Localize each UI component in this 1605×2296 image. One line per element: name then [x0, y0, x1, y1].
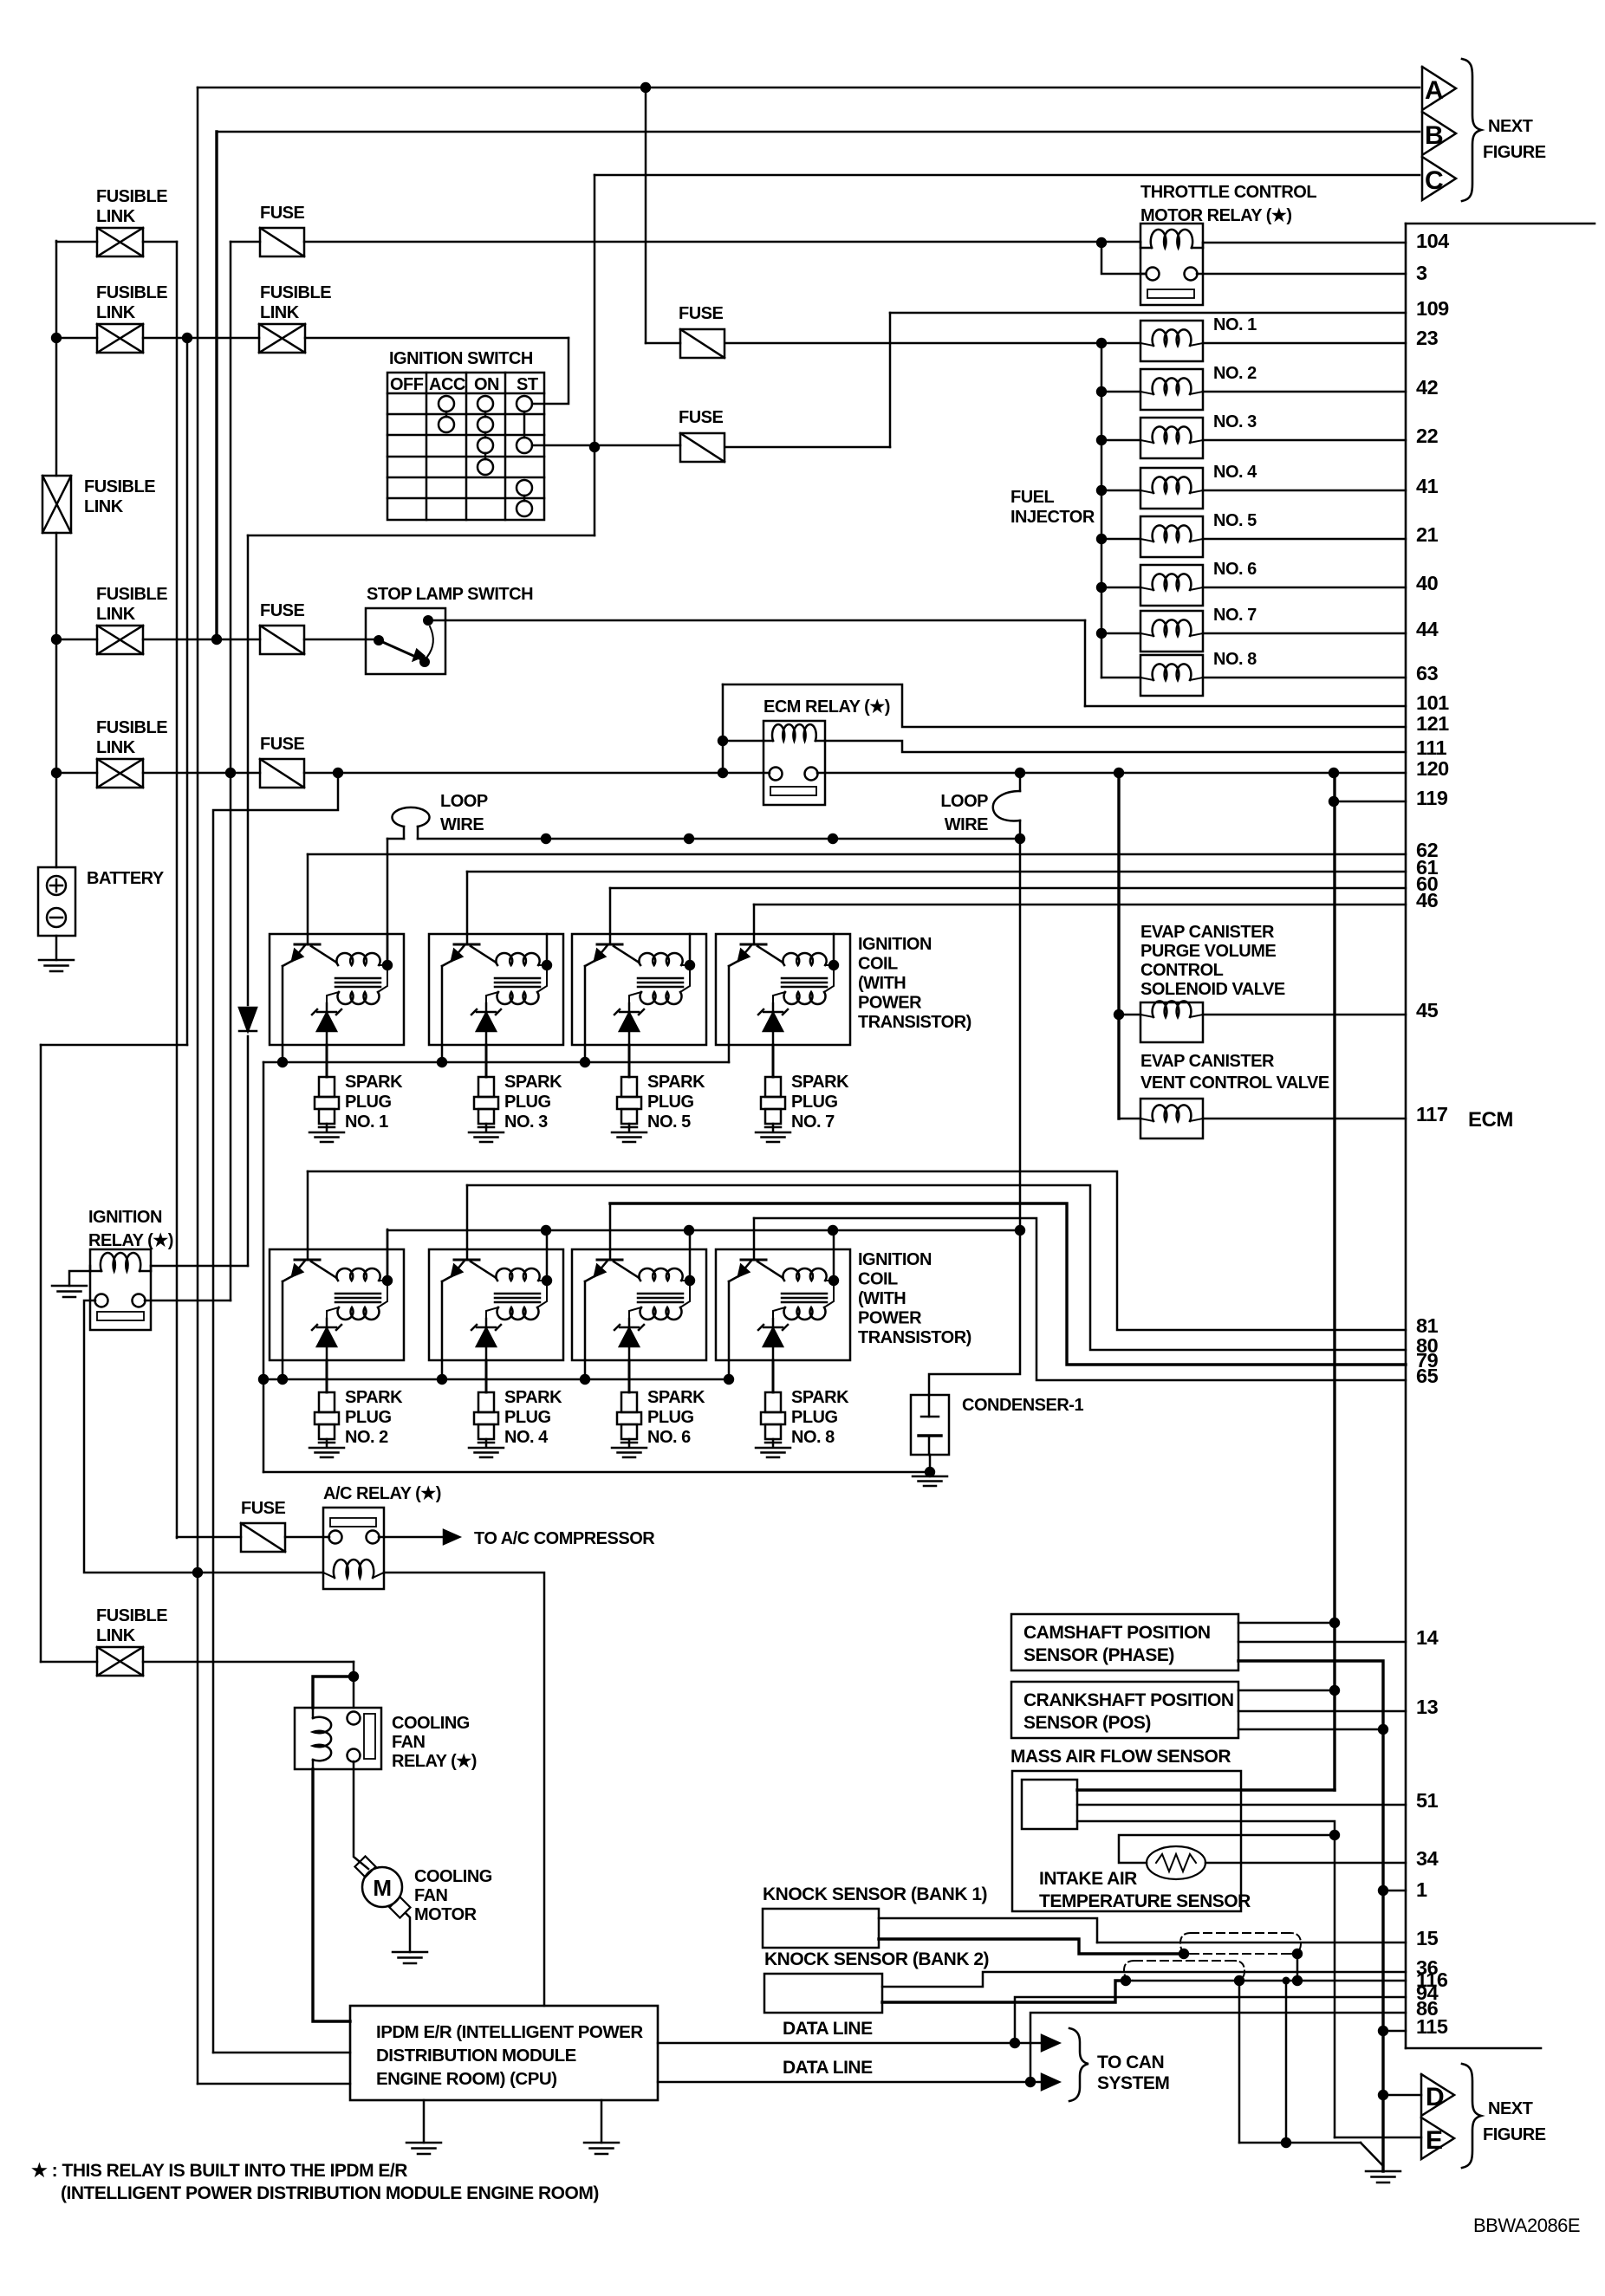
spark plug NO. 8 [765, 1392, 781, 1412]
wire sensor feed riser x1540 (upper) [1333, 773, 1335, 1790]
ECM relay lower bar [770, 787, 816, 795]
svg-text:ENGINE ROOM) (CPU): ENGINE ROOM) (CPU) [376, 2069, 557, 2089]
junction net-A / fuse feed x745 [640, 82, 651, 93]
junction knock1 shield right [1292, 1949, 1303, 1959]
svg-text:ECM RELAY (★): ECM RELAY (★) [764, 697, 890, 717]
ground spark plug NO. 5 [612, 1132, 647, 1134]
svg-text:VENT CONTROL VALVE: VENT CONTROL VALVE [1140, 1073, 1329, 1093]
svg-text:NO. 4: NO. 4 [1213, 463, 1257, 482]
spark plug NO. 1 [319, 1077, 335, 1097]
wire x266 vertical [230, 242, 232, 1300]
svg-text:14: 14 [1416, 1626, 1439, 1649]
ground spark plug NO. 6 [612, 1447, 647, 1450]
A/C relay contacts [329, 1531, 342, 1544]
ignition coil primary #3 [639, 953, 682, 965]
svg-text:45: 45 [1416, 999, 1439, 1022]
ignition coil secondary #5 [337, 1307, 379, 1320]
wire knock2 w2 shield [882, 1981, 1126, 2002]
ECM relay RY2 box [764, 721, 825, 805]
junction primary/secondary right #4 [828, 960, 839, 970]
diode ignition coil #6 [477, 1328, 496, 1346]
fuel injector NO. 8 [1101, 677, 1140, 679]
svg-text:104: 104 [1416, 230, 1449, 252]
junction bus2 riser [1015, 1225, 1025, 1236]
brace next-figure bottom [1462, 2064, 1481, 2168]
svg-text:KNOCK SENSOR (BANK 1): KNOCK SENSOR (BANK 1) [763, 1884, 987, 1904]
svg-text:NO. 1: NO. 1 [1213, 315, 1257, 334]
transistor Q4 [741, 944, 766, 946]
wire to A/C compressor [379, 1536, 444, 1539]
wire base line 62 [307, 854, 309, 934]
ignition coil primary #7 [639, 1268, 682, 1281]
diode ignition coil #3 [620, 1013, 639, 1031]
wire box1 primary feed drop [387, 839, 389, 965]
ECM relay contacts [770, 768, 783, 781]
svg-text:FUSIBLE: FUSIBLE [96, 283, 167, 302]
wire injector NO. 7 to ECM [1203, 632, 1406, 635]
fuel injector NO. 2 [1101, 391, 1140, 393]
junction primary/secondary right #5 [382, 1275, 393, 1286]
svg-text:FUSE: FUSE [679, 408, 724, 427]
wire net-A into IPDM [198, 2083, 350, 2085]
svg-text:RELAY (★): RELAY (★) [88, 1231, 173, 1250]
svg-text:POWER: POWER [858, 1309, 922, 1328]
svg-text:NO. 8: NO. 8 [1213, 650, 1257, 669]
svg-text:FAN: FAN [392, 1733, 426, 1752]
wire injector NO. 1 to ECM [1203, 342, 1406, 345]
svg-text:117: 117 [1416, 1103, 1448, 1125]
svg-text:ON: ON [474, 375, 499, 394]
svg-text:FUSIBLE: FUSIBLE [96, 718, 167, 737]
wire D stub [1383, 2094, 1421, 2097]
svg-text:NO. 6: NO. 6 [1213, 560, 1257, 579]
diode ignition coil #4 [764, 1013, 783, 1031]
transistor Q5 [295, 1259, 320, 1262]
ignition coil (with power transistor) box #2 [429, 934, 563, 1045]
svg-text:PLUG: PLUG [345, 1408, 392, 1427]
junction injector bus NO. 2 [1096, 386, 1107, 397]
wire ignition relay contact right to x266 [145, 1300, 231, 1302]
shield knock1 (dashed) [1191, 1933, 1293, 1954]
wire intake temp feed [1119, 1835, 1335, 1863]
svg-text:TRANSISTOR): TRANSISTOR) [858, 1328, 971, 1347]
ignition coil primary #1 [336, 953, 380, 965]
wire ECM relay coil-left riser [723, 740, 764, 743]
ECM relay coil [772, 724, 816, 741]
svg-text:IPDM E/R (INTELLIGENT POWER: IPDM E/R (INTELLIGENT POWER [376, 2022, 643, 2042]
wire spark leads row2 [326, 1360, 328, 1392]
svg-text:PURGE VOLUME: PURGE VOLUME [1140, 942, 1276, 961]
junction primary/secondary right #7 [685, 1275, 695, 1286]
svg-text:WIRE: WIRE [945, 815, 988, 834]
junction pin1 stub [1378, 1885, 1388, 1896]
A/C relay RY4 box [323, 1508, 384, 1589]
junction primary/secondary right #6 [542, 1275, 552, 1286]
svg-text:PLUG: PLUG [504, 1093, 551, 1112]
wire 34 to ECM [1205, 1862, 1406, 1865]
svg-text:34: 34 [1416, 1847, 1439, 1870]
svg-text:MASS AIR FLOW SENSOR: MASS AIR FLOW SENSOR [1010, 1747, 1231, 1767]
svg-text:B: B [1425, 121, 1443, 150]
ignition coil primary #4 [783, 953, 826, 965]
wire data2 riser to pin86 [1030, 2013, 1406, 2082]
connector triangle A [1422, 67, 1456, 110]
wire base line 81 [307, 1171, 309, 1249]
wire A/C coil right to IPDM [384, 1573, 544, 2006]
svg-text:LINK: LINK [96, 207, 136, 226]
wire throttle relay contact feed [1101, 243, 1146, 274]
diode ignition coil #5 [317, 1328, 336, 1346]
wire cooling fan coil feed [313, 1677, 354, 1708]
svg-text:OFF: OFF [390, 375, 424, 394]
IPDM E/R box [350, 2006, 658, 2100]
ignition coil (with power transistor) box #8 [716, 1249, 850, 1360]
svg-text:C: C [1425, 166, 1443, 195]
wire net-A drop x745 to fuse F4 [645, 88, 647, 343]
svg-text:42: 42 [1416, 376, 1439, 399]
fuel injector NO. 4 [1101, 490, 1140, 492]
wire motor to ground [406, 1913, 410, 1952]
svg-text:LINK: LINK [96, 738, 136, 757]
svg-text:NO. 3: NO. 3 [504, 1112, 548, 1132]
svg-text:FAN: FAN [414, 1886, 448, 1905]
svg-text:D: D [1426, 2083, 1444, 2111]
svg-text:PLUG: PLUG [647, 1093, 694, 1112]
junction injector bus NO. 3 [1096, 435, 1107, 445]
wire MAF w2 pin51 [1077, 1804, 1406, 1806]
crankshaft position sensor box [1011, 1682, 1238, 1738]
svg-text:NO. 7: NO. 7 [1213, 606, 1257, 625]
svg-text:FUSIBLE: FUSIBLE [96, 187, 167, 206]
junction battery bus / fusible-link row 4 [51, 768, 62, 778]
EVAP canister vent control valve [1119, 1118, 1140, 1120]
wire coil bus row2 [387, 1229, 1020, 1232]
svg-text:41: 41 [1416, 475, 1439, 497]
wire knock1 w1 to pin15 [879, 1918, 1097, 1943]
wire base line 60 [609, 888, 612, 934]
wire cam w3 to ground bus [1238, 1661, 1383, 2171]
junction shield ground run [1281, 2137, 1291, 2148]
svg-text:SPARK: SPARK [345, 1073, 403, 1092]
wire drop to A/C relay region x246 [213, 773, 338, 2053]
ECM box [1405, 224, 1407, 2048]
svg-text:FUSIBLE: FUSIBLE [96, 1606, 167, 1625]
svg-text:LINK: LINK [96, 303, 136, 322]
svg-text:PLUG: PLUG [647, 1408, 694, 1427]
svg-text:23: 23 [1416, 327, 1439, 349]
ignition switch SW1 table [387, 373, 544, 520]
svg-text:BATTERY: BATTERY [87, 869, 165, 888]
knock sensor bank2 box [764, 1974, 882, 2013]
junction net-B on stop-lamp fuse row [211, 634, 222, 645]
svg-text:109: 109 [1416, 297, 1449, 320]
wire ignition switch feed (ST row1) [532, 338, 569, 404]
connector triangle C [1422, 157, 1456, 200]
svg-text:NO. 2: NO. 2 [1213, 364, 1257, 383]
throttle relay lower bar [1147, 289, 1194, 298]
wire injector NO. 8 to ECM [1203, 677, 1406, 679]
svg-text:PLUG: PLUG [345, 1093, 392, 1112]
wire net-B horizontal [217, 131, 1420, 133]
junction 119/sensor riser [1329, 796, 1339, 807]
cooling fan relay contacts [348, 1712, 361, 1725]
fuel injector NO. 6 [1101, 587, 1140, 589]
junction pin115 stub [1378, 2026, 1388, 2036]
junction condenser ground [925, 1467, 935, 1477]
transistor Q3 [597, 944, 622, 946]
svg-text:NO. 3: NO. 3 [1213, 412, 1257, 431]
svg-text:DATA LINE: DATA LINE [783, 2058, 873, 2078]
wire ignition relay coil right to x286 [151, 1265, 248, 1268]
wire F6 feed from x204 [177, 1536, 241, 1539]
ground ignition relay [52, 1285, 87, 1287]
svg-text:SPARK: SPARK [647, 1073, 705, 1092]
camshaft position sensor box [1011, 1614, 1238, 1670]
svg-text:13: 13 [1416, 1696, 1439, 1718]
svg-text:PLUG: PLUG [791, 1093, 838, 1112]
wire base line 79 [609, 1203, 612, 1249]
ignition relay contacts [95, 1294, 108, 1307]
spark plug NO. 3 [478, 1077, 494, 1097]
svg-text:NO. 2: NO. 2 [345, 1428, 388, 1447]
wire stop-lamp fuse row [56, 639, 97, 641]
wire injector NO. 4 to ECM [1203, 490, 1406, 492]
svg-text:FUSE: FUSE [260, 735, 305, 754]
EVAP canister purge volume control solenoid valve [1119, 1014, 1140, 1016]
fuel injector NO. 3 [1101, 439, 1140, 442]
svg-text:SPARK: SPARK [504, 1073, 562, 1092]
fusible link FL2 [97, 324, 143, 353]
ignition coil secondary #1 [337, 992, 379, 1004]
svg-text:M: M [373, 1875, 391, 1901]
fuse F3 (ECM relay feed) [260, 759, 304, 788]
svg-text:(INTELLIGENT POWER DISTRIBUTIO: (INTELLIGENT POWER DISTRIBUTION MODULE E… [61, 2183, 599, 2203]
svg-text:SYSTEM: SYSTEM [1097, 2073, 1169, 2093]
diode ignition coil #7 [620, 1328, 639, 1346]
ground spark plug NO. 4 [469, 1447, 504, 1450]
svg-text:40: 40 [1416, 572, 1439, 594]
wire knock1 w2 shield [879, 1939, 1184, 1954]
svg-text:ST: ST [517, 375, 538, 394]
svg-text:NO. 7: NO. 7 [791, 1112, 835, 1132]
svg-text:INTAKE AIR: INTAKE AIR [1039, 1869, 1137, 1889]
svg-text:TO A/C COMPRESSOR: TO A/C COMPRESSOR [474, 1529, 655, 1548]
junction primary/secondary right #3 [685, 960, 695, 970]
ground condenser [913, 1476, 947, 1478]
wire net-C horizontal [595, 174, 1420, 177]
junction bus1/box4 [828, 833, 838, 844]
svg-text:44: 44 [1416, 618, 1439, 640]
wire injector NO. 2 to ECM [1203, 391, 1406, 393]
svg-text:121: 121 [1416, 712, 1449, 735]
stop lamp switch SW2 [366, 608, 445, 674]
ground spark plug NO. 8 [756, 1447, 790, 1450]
ignition coil (with power transistor) box #4 [716, 934, 850, 1045]
fuel injector NO. 7 [1101, 632, 1140, 635]
fuse F6 (A/C) [241, 1523, 285, 1552]
junction bus1/box2 [541, 833, 551, 844]
ignition coil secondary #2 [497, 992, 539, 1004]
brace next-figure top [1462, 59, 1481, 201]
wire MAF w1 [1077, 1788, 1335, 1791]
wire coil bus row1 [418, 838, 1020, 840]
wire 3 to ECM [1197, 273, 1406, 276]
fusible link FL3 (vertical, in battery bus) [42, 476, 71, 533]
wire cam w1 [1238, 1622, 1335, 1625]
svg-text:POWER: POWER [858, 994, 922, 1013]
wire data line 1 [658, 2042, 1042, 2045]
junction knock2 shield right [1234, 1975, 1244, 1986]
shield knock2 (dashed) [1134, 1961, 1237, 1981]
junction crank w1 [1329, 1685, 1340, 1696]
cooling fan motor M1 [354, 1856, 375, 1877]
wire 121 route [723, 684, 1406, 727]
svg-text:FUSE: FUSE [679, 304, 724, 323]
wire 109 to ECM [890, 312, 1406, 315]
svg-text:46: 46 [1416, 889, 1439, 911]
wire 119 from riser to ECM [1334, 801, 1406, 803]
svg-text:SPARK: SPARK [647, 1388, 705, 1407]
svg-text:101: 101 [1416, 691, 1449, 714]
wire cooling fan relay coil to IPDM [313, 1769, 350, 2021]
wire condenser feed from coil bus riser [929, 1230, 1020, 1395]
svg-text:FUSIBLE: FUSIBLE [260, 283, 331, 302]
svg-text:SENSOR (PHASE): SENSOR (PHASE) [1023, 1645, 1174, 1665]
wire emitter bus row1 [263, 1061, 729, 1064]
wire shield2 drop x1430 [1238, 1981, 1241, 2143]
cooling fan relay bar [364, 1714, 375, 1759]
wire net-A left vertical x228 [197, 88, 199, 2084]
svg-text:CAMSHAFT POSITION: CAMSHAFT POSITION [1023, 1623, 1211, 1643]
loop wire 1 (left) [392, 807, 429, 827]
mass air flow sensor box [1012, 1771, 1241, 1911]
svg-text:SPARK: SPARK [791, 1073, 849, 1092]
ground battery [55, 936, 58, 960]
throttle control motor relay RY1 box [1140, 224, 1203, 305]
svg-text:115: 115 [1416, 2015, 1448, 2038]
wire condenser bottom / ground bus row [929, 1455, 932, 1472]
wire injector feed F4 to bus [725, 342, 1101, 345]
throttle relay contacts [1147, 268, 1160, 281]
ignition coil primary #2 [496, 953, 539, 965]
wire crank w2 pin13 [1238, 1710, 1406, 1713]
wire data1 riser to pin94 [1015, 1997, 1406, 2043]
intake air temperature sensor [1147, 1846, 1205, 1879]
svg-text:FIGURE: FIGURE [1483, 2125, 1546, 2144]
ignition relay coil [101, 1253, 140, 1271]
junction primary/secondary right #8 [828, 1275, 839, 1286]
junction knock1 shield left [1179, 1949, 1189, 1959]
wire emitter stubs row2 [441, 1360, 444, 1379]
fusible link FL5 [97, 759, 143, 788]
junction shield drop on 116 [1292, 1975, 1303, 1986]
wire loop2 riser x1177 [1019, 773, 1022, 791]
svg-text:22: 22 [1416, 425, 1439, 447]
junction relay contact row [718, 768, 728, 778]
fusible link FL4 [259, 324, 305, 353]
wire drop x1484 [1285, 1981, 1288, 2143]
svg-text:FUSIBLE: FUSIBLE [96, 585, 167, 604]
svg-text:★ : THIS RELAY IS BUILT INTO: ★ : THIS RELAY IS BUILT INTO THE IPDM E/… [31, 2161, 407, 2181]
wire cam w2 pin14 [1238, 1641, 1406, 1644]
wire spark leads row1 [326, 1045, 328, 1077]
svg-text:FIGURE: FIGURE [1483, 143, 1546, 162]
wire net-C vertical x686 [594, 175, 596, 535]
svg-text:FUSIBLE: FUSIBLE [84, 477, 155, 496]
wire crank w3 [1238, 1728, 1383, 1731]
wire base line 61 [466, 872, 469, 934]
knock sensor bank1 box [763, 1909, 879, 1948]
wire data line 2 [658, 2081, 1042, 2084]
svg-text:WIRE: WIRE [440, 815, 484, 834]
svg-text:NO. 8: NO. 8 [791, 1428, 835, 1447]
ground spark plug NO. 1 [309, 1132, 344, 1134]
arrow data1 [1042, 2035, 1059, 2051]
A/C relay coil [334, 1560, 374, 1578]
svg-text:COOLING: COOLING [392, 1714, 470, 1733]
svg-text:LINK: LINK [260, 303, 300, 322]
svg-text:SPARK: SPARK [504, 1388, 562, 1407]
junction MAF w3 / temp feed [1329, 1830, 1340, 1840]
svg-text:CONTROL: CONTROL [1140, 961, 1224, 980]
connector triangle D [1421, 2074, 1454, 2116]
svg-text:ACC: ACC [429, 375, 465, 394]
svg-text:E: E [1426, 2126, 1443, 2155]
svg-text:PLUG: PLUG [791, 1408, 838, 1427]
junction net-C / ignition-switch output [589, 442, 600, 452]
wire ignition relay coil to ground [69, 1271, 90, 1286]
svg-text:KNOCK SENSOR (BANK 2): KNOCK SENSOR (BANK 2) [764, 1949, 989, 1969]
transistor Q1 [295, 944, 320, 946]
junction x1484 on 116 [1283, 1977, 1290, 1985]
IPDM ground 2 [601, 2100, 603, 2143]
wire net-C elbow to x286 [248, 535, 595, 537]
wire ECM-relay fuse row (net 120) [56, 772, 97, 775]
brace to CAN [1069, 2028, 1088, 2101]
svg-text:EVAP CANISTER: EVAP CANISTER [1140, 923, 1275, 942]
svg-text:STOP LAMP SWITCH: STOP LAMP SWITCH [367, 585, 533, 604]
fuse F1 (throttle relay feed) [260, 228, 304, 256]
junction FL2 row / x216 drop [182, 333, 192, 343]
wire stop lamp output to pin 101 [428, 619, 1085, 622]
diode ignition coil #8 [764, 1328, 783, 1346]
ignition coil (with power transistor) box #3 [572, 934, 706, 1045]
svg-text:15: 15 [1416, 1927, 1439, 1949]
junction emitter buses x304 [258, 1374, 269, 1385]
svg-text:63: 63 [1416, 662, 1439, 684]
junction cooling fan feed [348, 1671, 359, 1682]
wire crank w1 [1238, 1690, 1335, 1692]
wire FL1 output vertical x204 [176, 242, 179, 1538]
junction F3 out / A-C relay drop [333, 768, 343, 778]
junction D stub [1378, 2090, 1388, 2100]
wire injector bus [1101, 343, 1103, 678]
junction battery bus / fusible-link row 2 [51, 333, 62, 343]
svg-text:TRANSISTOR): TRANSISTOR) [858, 1013, 971, 1032]
svg-text:NO. 4: NO. 4 [504, 1428, 549, 1447]
spark plug NO. 2 [319, 1392, 335, 1412]
junction crank w3 / ground bus [1378, 1724, 1388, 1735]
svg-text:A/C RELAY (★): A/C RELAY (★) [323, 1484, 441, 1503]
junction injector bus NO. 5 [1096, 534, 1107, 544]
connector triangle B [1422, 112, 1456, 155]
ignition coil secondary #4 [784, 992, 826, 1004]
spark plug NO. 7 [765, 1077, 781, 1097]
wire FL2 row [56, 337, 97, 340]
svg-text:FUSE: FUSE [241, 1499, 286, 1518]
junction injector bus NO. 1 [1096, 338, 1107, 348]
svg-text:NO. 6: NO. 6 [647, 1428, 691, 1447]
